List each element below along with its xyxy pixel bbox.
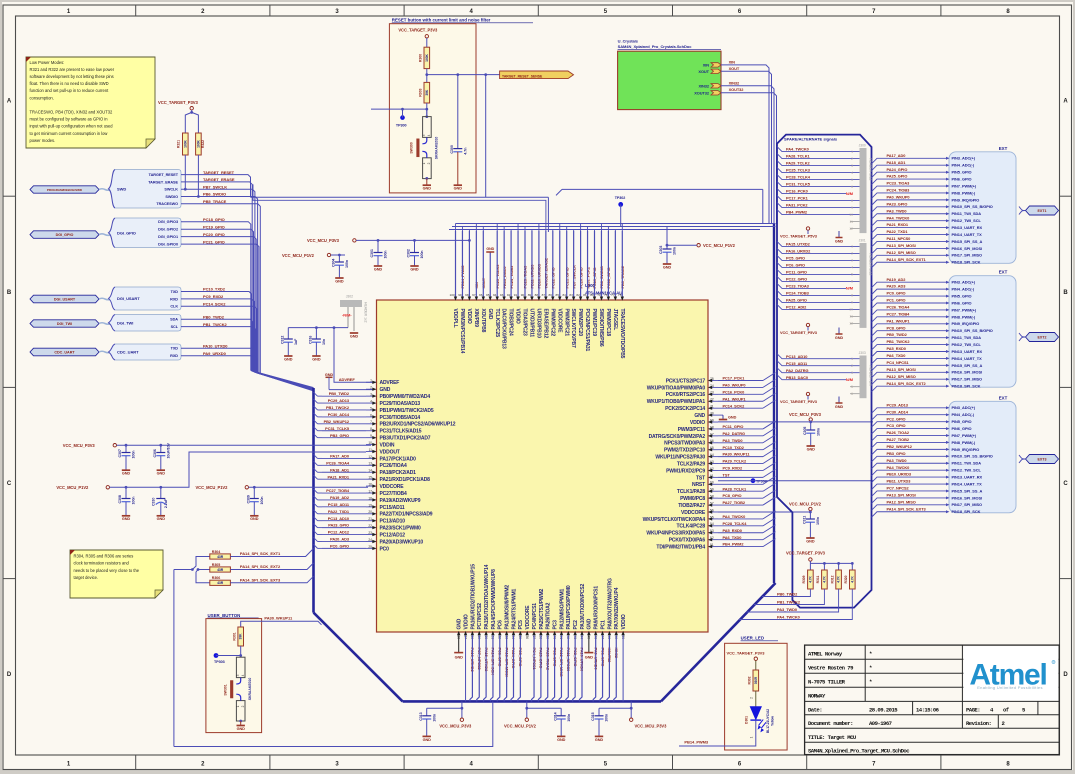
svg-text:PC14_SCK2: PC14_SCK2: [203, 302, 226, 307]
svg-text:90: 90: [521, 293, 525, 297]
svg-text:PA11_NPCS0: PA11_NPCS0: [887, 236, 911, 241]
svg-text:97: 97: [472, 293, 476, 297]
svg-text:VCC_MCU_P3V3: VCC_MCU_P3V3: [439, 723, 472, 728]
svg-text:A: A: [1063, 99, 1068, 105]
capacitor C315: [598, 708, 600, 716]
svg-text:PIN14_UART_TX: PIN14_UART_TX: [952, 232, 983, 237]
svg-text:float. Then there is no need t: float. Then there is no need to disable …: [30, 81, 109, 86]
capacitor C304: [338, 255, 340, 262]
capacitor C302: [414, 240, 416, 252]
capacitor C308: [125, 487, 127, 498]
capacitor C313: [426, 708, 428, 716]
svg-text:PA20_AD3: PA20_AD3: [330, 537, 350, 542]
svg-text:PA0_WKUP0: PA0_WKUP0: [723, 383, 746, 388]
svg-text:PC9_RXD2: PC9_RXD2: [203, 294, 224, 299]
svg-text:N/M: N/M: [846, 377, 853, 382]
svg-text:85: 85: [555, 293, 559, 297]
svg-text:1: 1: [851, 150, 853, 154]
power tap VCC_MCU_P3V3 bottom right: [630, 701, 632, 718]
svg-text:1: 1: [422, 162, 426, 164]
svg-text:PC25_TCLK3: PC25_TCLK3: [786, 168, 811, 173]
svg-text:C304: C304: [332, 259, 336, 267]
resistor R311: [822, 570, 828, 589]
svg-text:PWM1/RXD2/PC9: PWM1/RXD2/PC9: [666, 468, 705, 474]
svg-text:C312: C312: [281, 336, 285, 344]
resistor R320: [850, 570, 856, 589]
svg-text:PIN10_SPI_SS_B/GPIO: PIN10_SPI_SS_B/GPIO: [952, 328, 993, 333]
svg-text:PCK2/NPCS1/PA31: PCK2/NPCS1/PA31: [584, 309, 590, 352]
svg-text:R320: R320: [844, 575, 848, 583]
svg-text:PC31_TCLK5: PC31_TCLK5: [786, 182, 811, 187]
svg-text:PC22_GPIO: PC22_GPIO: [786, 277, 807, 282]
svg-text:UTXD3/PB11: UTXD3/PB11: [529, 309, 535, 338]
svg-text:PA19_AD2: PA19_AD2: [330, 495, 350, 500]
svg-text:PA4_TWCK0: PA4_TWCK0: [777, 615, 800, 620]
harness DGI_USART: [113, 287, 181, 309]
svg-text:PIN18_SPI_SCK: PIN18_SPI_SCK: [952, 384, 981, 389]
svg-text:TCLK3/PC25: TCLK3/PC25: [494, 309, 500, 338]
svg-text:TARGET_RESET: TARGET_RESET: [149, 173, 179, 177]
svg-text:TCLK1/PA28: TCLK1/PA28: [677, 489, 706, 495]
svg-text:TP300: TP300: [396, 123, 407, 127]
svg-text:GND: GND: [585, 656, 594, 660]
svg-text:3: 3: [422, 134, 426, 136]
svg-text:PIN5_GPIO: PIN5_GPIO: [952, 419, 972, 424]
svg-text:TXD: TXD: [171, 290, 179, 294]
svg-text:consumption.: consumption.: [30, 95, 54, 100]
svg-text:VCC_MCU_P3V3: VCC_MCU_P3V3: [63, 443, 96, 448]
svg-text:XOUT32: XOUT32: [729, 87, 745, 92]
svg-text:PA26/TIOA2: PA26/TIOA2: [546, 602, 552, 629]
capacitor C312: [287, 328, 289, 339]
svg-text:TARGET_RESET_SENSE: TARGET_RESET_SENSE: [502, 74, 543, 78]
title block table: [805, 645, 1060, 755]
svg-text:PIN8_PWM(-): PIN8_PWM(-): [952, 314, 976, 319]
svg-text:VCC_MCU_P1V2: VCC_MCU_P1V2: [703, 243, 736, 248]
svg-text:PB1_TWCK2: PB1_TWCK2: [203, 322, 228, 327]
svg-text:EXT: EXT: [999, 270, 1008, 275]
svg-text:2: 2: [749, 697, 753, 699]
svg-text:PC23_TIOA3: PC23_TIOA3: [786, 284, 810, 289]
svg-text:PA4_TWCK0: PA4_TWCK0: [786, 147, 809, 152]
svg-text:DGI_GPIO0: DGI_GPIO0: [158, 243, 178, 247]
svg-text:R303: R303: [419, 89, 423, 97]
svg-text:PC16_PCK0: PC16_PCK0: [786, 189, 808, 194]
svg-text:PIN15_SPI_SS_A: PIN15_SPI_SS_A: [952, 239, 983, 244]
wire ADVREF from rail: [334, 328, 377, 383]
svg-text:PB0_TWD2: PB0_TWD2: [887, 332, 908, 337]
svg-text:PA23/SCK1/PWM0: PA23/SCK1/PWM0: [380, 526, 422, 532]
svg-text:PIN3_ADC(+): PIN3_ADC(+): [952, 156, 976, 161]
capacitor C316: [315, 328, 317, 339]
svg-text:J301: J301: [859, 239, 866, 243]
svg-text:DGI_GPIO: DGI_GPIO: [56, 233, 74, 237]
power VCC_TARGET_P5V3 under J301: [806, 323, 809, 326]
svg-text:PA6_TXD0: PA6_TXD0: [887, 353, 906, 358]
port EXT3: [1019, 455, 1025, 459]
svg-text:4: 4: [241, 674, 245, 676]
svg-text:100n: 100n: [132, 497, 136, 505]
svg-text:*: *: [869, 664, 872, 671]
svg-text:PC12_AD12: PC12_AD12: [328, 530, 350, 535]
svg-text:R321: R321: [177, 140, 181, 148]
svg-text:Yellow: Yellow: [771, 716, 775, 726]
svg-text:PA21_RXD1: PA21_RXD1: [328, 474, 350, 479]
svg-text:DATRG/SCK0/PWM2/PA2: DATRG/SCK0/PWM2/PA2: [649, 434, 706, 440]
svg-text:PC12_ADI2: PC12_ADI2: [786, 305, 807, 310]
USER_BUTTON box outline: [206, 619, 262, 733]
svg-text:CDC_UART: CDC_UART: [117, 350, 139, 355]
wire R300 to junction: [426, 69, 428, 83]
svg-text:GND: GND: [806, 539, 815, 543]
svg-text:PC14_SCK2: PC14_SCK2: [723, 403, 746, 408]
resistor R321: [183, 133, 189, 155]
svg-text:PA22/TXD1/NPCS3/AD9: PA22/TXD1/NPCS3/AD9: [380, 512, 433, 518]
EXT group box EXT2: [949, 276, 1016, 388]
svg-text:VCC_TARGET_P3V3: VCC_TARGET_P3V3: [158, 100, 198, 105]
svg-text:PC6_GPIO: PC6_GPIO: [786, 263, 805, 268]
svg-text:PIN18_SPI_SCK: PIN18_SPI_SCK: [952, 509, 981, 514]
svg-text:1: 1: [236, 705, 240, 707]
svg-text:81: 81: [583, 293, 587, 297]
svg-text:VCC_MCU_P3V3: VCC_MCU_P3V3: [789, 412, 822, 417]
wire reset row to left: [371, 108, 427, 110]
port EXT2: [1019, 333, 1025, 337]
svg-text:98: 98: [465, 293, 469, 297]
svg-text:VCC_MCU_P1V2: VCC_MCU_P1V2: [56, 485, 89, 490]
svg-text:PA1_WKUP1: PA1_WKUP1: [887, 318, 911, 323]
svg-text:Revision:: Revision:: [966, 720, 991, 727]
svg-text:8: 8: [851, 294, 853, 298]
svg-text:PA24/RTS1/PWM1: PA24/RTS1/PWM1: [511, 589, 517, 630]
svg-text:3: 3: [851, 259, 853, 263]
svg-text:PC29_AD13: PC29_AD13: [887, 402, 909, 407]
svg-text:4: 4: [427, 134, 431, 136]
svg-text:PB3/UTXD1/PCK2/AD7: PB3/UTXD1/PCK2/AD7: [380, 436, 431, 442]
harness DGI_GPIO: [113, 218, 181, 247]
svg-text:DAC0/PCK0/PB13: DAC0/PCK0/PB13: [501, 309, 507, 350]
svg-text:PA7/XIN32/WKUP4: PA7/XIN32/WKUP4: [614, 587, 620, 629]
svg-text:PA8/XOUT32/WADTRG: PA8/XOUT32/WADTRG: [607, 578, 613, 630]
svg-text:VDDCORE: VDDCORE: [556, 309, 562, 334]
svg-text:PIN11_TWI_SDA: PIN11_TWI_SDA: [952, 211, 982, 216]
svg-text:PIN10_SPI_SS_B/GPIO: PIN10_SPI_SS_B/GPIO: [952, 454, 993, 459]
svg-text:PA3_TWD0: PA3_TWD0: [887, 458, 907, 463]
svg-text:PA1_WKUP1: PA1_WKUP1: [723, 396, 747, 401]
svg-text:PB7_SWCLK: PB7_SWCLK: [203, 184, 227, 189]
svg-text:SDA: SDA: [170, 318, 178, 322]
svg-text:DGI_GPIO1: DGI_GPIO1: [158, 235, 178, 239]
svg-text:PB1_TWCK2: PB1_TWCK2: [887, 339, 911, 344]
svg-text:GND: GND: [595, 738, 604, 742]
svg-text:100K: 100K: [425, 54, 429, 62]
svg-text:PIN9_IRQ/GPIO: PIN9_IRQ/GPIO: [952, 321, 980, 326]
svg-text:PA25/CTS1/PWM2: PA25/CTS1/PWM2: [539, 589, 545, 630]
svg-text:PA13/MOSI/8/PWM2: PA13/MOSI/8/PWM2: [505, 585, 511, 630]
svg-text:8: 8: [851, 199, 853, 203]
svg-text:GND: GND: [335, 279, 344, 283]
svg-text:-N/M-: -N/M-: [342, 313, 352, 318]
svg-text:GND: GND: [157, 517, 166, 521]
svg-text:®: ®: [1053, 661, 1055, 664]
svg-text:PC13_AD10: PC13_AD10: [786, 354, 807, 359]
svg-text:XIN: XIN: [703, 62, 710, 67]
svg-text:96: 96: [479, 293, 483, 297]
svg-text:PA13_SPI_MOSI: PA13_SPI_MOSI: [887, 243, 916, 248]
svg-text:SWDIO: SWDIO: [165, 195, 178, 199]
svg-text:XOUT32: XOUT32: [694, 90, 710, 95]
svg-text:PB1/PWM1/TWCK2/AD5: PB1/PWM1/TWCK2/AD5: [380, 408, 434, 414]
svg-text:PA23_GPIO: PA23_GPIO: [328, 523, 349, 528]
svg-text:NRST: NRST: [692, 482, 705, 488]
svg-text:GND: GND: [312, 357, 321, 361]
svg-text:39K: 39K: [239, 633, 243, 640]
gnd at MCU right pin 70: [718, 414, 723, 416]
LED D301: [750, 707, 761, 720]
svg-text:PA12_SPI_MISO: PA12_SPI_MISO: [887, 250, 916, 255]
svg-text:PC30/TIOB5/AD14: PC30/TIOB5/AD14: [380, 415, 421, 421]
svg-text:TIOA3/PC23: TIOA3/PC23: [522, 309, 528, 336]
svg-text:PC2: PC2: [573, 620, 579, 630]
wires crystals to right bus: [721, 65, 769, 224]
svg-text:SW301: SW301: [224, 684, 228, 695]
svg-text:PCK0/RTS2/PC16: PCK0/RTS2/PC16: [666, 392, 706, 398]
svg-text:SWCLK/TCK/PB7: SWCLK/TCK/PB7: [570, 309, 576, 349]
svg-text:87: 87: [542, 293, 546, 297]
svg-text:PA20/AD3/WKUP10: PA20/AD3/WKUP10: [380, 539, 424, 545]
svg-text:5: 5: [851, 385, 853, 389]
svg-text:RXD: RXD: [170, 354, 178, 358]
svg-text:76: 76: [618, 293, 622, 297]
svg-text:4.7K: 4.7K: [822, 575, 826, 582]
gnd under SW301: [239, 720, 242, 723]
svg-text:100n: 100n: [816, 428, 820, 436]
svg-text:PWM2/PC20: PWM2/PC20: [577, 309, 583, 337]
wire TARGET_RESET_SENSE down to corridor: [485, 75, 487, 198]
svg-text:86: 86: [549, 293, 553, 297]
svg-text:PWM3/PC21: PWM3/PC21: [563, 309, 569, 337]
svg-text:100n: 100n: [260, 497, 264, 505]
svg-text:PCK1/CTS2/PC17: PCK1/CTS2/PC17: [666, 378, 706, 384]
svg-text:100n: 100n: [673, 247, 677, 255]
svg-text:PA2_DATRG: PA2_DATRG: [723, 431, 745, 436]
svg-text:WKUP11/NPCS2/PA30: WKUP11/NPCS2/PA30: [655, 455, 705, 461]
svg-text:NPCS3/TWD0/PA3: NPCS3/TWD0/PA3: [664, 441, 705, 447]
svg-text:PIN4_ADC(-): PIN4_ADC(-): [952, 287, 975, 292]
svg-text:88: 88: [535, 293, 539, 297]
svg-text:VCC_TARGET_P5V3: VCC_TARGET_P5V3: [780, 399, 818, 404]
power tap VCC_MCU_P3V3 bottom left: [427, 707, 462, 709]
svg-text:PB2_WKUP12: PB2_WKUP12: [324, 419, 350, 424]
svg-text:C305: C305: [803, 427, 807, 435]
svg-text:PIN11_TWI_SDA: PIN11_TWI_SDA: [952, 461, 982, 466]
svg-text:PA2_DATRG: PA2_DATRG: [786, 368, 808, 373]
svg-text:2: 2: [851, 364, 853, 368]
svg-text:PA3_TWD0: PA3_TWD0: [723, 438, 743, 443]
resistor R303: [424, 82, 430, 103]
svg-text:PC29_AD13: PC29_AD13: [328, 398, 350, 403]
svg-text:PC28_TCLK4: PC28_TCLK4: [723, 521, 748, 526]
svg-text:GND: GND: [350, 334, 359, 338]
svg-text:PA19/AD2/WKUP9: PA19/AD2/WKUP9: [380, 498, 421, 504]
svg-text:DGI_GPIO2: DGI_GPIO2: [158, 228, 178, 232]
svg-text:PA4_TWCK0: PA4_TWCK0: [723, 514, 746, 519]
svg-text:PA5_RXD0: PA5_RXD0: [887, 346, 906, 351]
svg-text:J303: J303: [859, 351, 866, 355]
svg-text:SAM4N_Xplained_Pro_Target_MCU.: SAM4N_Xplained_Pro_Target_MCU.SchDoc: [808, 747, 910, 754]
svg-text:TXD: TXD: [171, 347, 179, 351]
svg-text:PIN6_GPIO: PIN6_GPIO: [952, 176, 972, 181]
svg-text:28.09.2015: 28.09.2015: [869, 707, 898, 714]
svg-text:PC6: PC6: [498, 620, 504, 630]
svg-text:2.2uF: 2.2uF: [164, 498, 168, 508]
svg-text:PWM0/PC18: PWM0/PC18: [605, 309, 611, 337]
svg-text:100n: 100n: [132, 451, 136, 459]
svg-text:Low Power Modes:: Low Power Modes:: [30, 60, 65, 65]
svg-text:USER_BUTTON: USER_BUTTON: [208, 613, 241, 618]
svg-text:HEADER 1x12: HEADER 1x12: [869, 253, 873, 276]
svg-text:PC10_TXD2: PC10_TXD2: [723, 445, 745, 450]
svg-text:PA19_AD2: PA19_AD2: [887, 277, 907, 282]
svg-text:R304: R304: [212, 550, 220, 554]
svg-text:PC3_GPIO: PC3_GPIO: [887, 423, 906, 428]
USER_LED box outline: [725, 643, 788, 750]
svg-text:PIN17_SPI_MISO: PIN17_SPI_MISO: [952, 253, 983, 258]
svg-text:PA3_TWD0: PA3_TWD0: [777, 607, 797, 612]
svg-text:92: 92: [507, 293, 511, 297]
svg-text:GND: GND: [374, 267, 383, 271]
capacitor C306: [160, 445, 162, 452]
resistor R305: [210, 567, 231, 572]
port CDC_UART: [30, 348, 99, 356]
svg-text:PC13/AD10: PC13/AD10: [380, 519, 406, 525]
svg-text:GND: GND: [663, 265, 672, 269]
svg-text:needs to be placed very close: needs to be placed very close to the: [74, 568, 140, 573]
harness tag TARGET_RESET_SENSE: [500, 71, 574, 79]
svg-text:TP303: TP303: [214, 660, 225, 664]
svg-text:PIN16_SPI_MOSI: PIN16_SPI_MOSI: [952, 370, 983, 375]
svg-text:PA15_UTXD2: PA15_UTXD2: [786, 242, 811, 247]
svg-text:Vestre Rosten 79: Vestre Rosten 79: [808, 664, 854, 671]
svg-text:PA15/UTXD2/TIOA1/WKUP14: PA15/UTXD2/TIOA1/WKUP14: [484, 564, 490, 629]
svg-text:U_Crystals: U_Crystals: [618, 38, 639, 43]
svg-text:TITLE: Target MCU: TITLE: Target MCU: [808, 734, 856, 741]
svg-text:XIN32: XIN32: [698, 83, 709, 88]
svg-text:TRACESWO, PB4 (TDI), XIN32 and: TRACESWO, PB4 (TDI), XIN32 and XOUT32: [30, 110, 114, 115]
power VCC_MCU_P1V2 top right: [697, 244, 700, 247]
svg-text:XIN/PB9: XIN/PB9: [473, 309, 479, 328]
Atmel logo: [963, 646, 1058, 700]
svg-text:PIN17_SPI_MISO: PIN17_SPI_MISO: [952, 377, 983, 382]
harness CDC_UART: [113, 344, 181, 359]
svg-text:PA11/NPCS0/PWM0: PA11/NPCS0/PWM0: [566, 585, 572, 629]
svg-text:PB11_UTXD3: PB11_UTXD3: [887, 479, 912, 484]
capacitor C303: [666, 227, 668, 250]
svg-text:PA18_AD1: PA18_AD1: [330, 467, 350, 472]
svg-text:PA6_TXD0: PA6_TXD0: [723, 535, 742, 540]
resistor R309: [808, 570, 814, 589]
svg-text:GND: GND: [325, 373, 334, 377]
svg-text:DGI_USART: DGI_USART: [54, 297, 76, 301]
svg-text:PIN13_UART_RX: PIN13_UART_RX: [952, 475, 983, 480]
port DGI_GPIO: [30, 231, 99, 239]
svg-text:VCC_TARGET_P3V3: VCC_TARGET_P3V3: [398, 27, 438, 32]
svg-text:PC3: PC3: [552, 620, 558, 630]
svg-text:11: 11: [849, 220, 853, 224]
svg-text:PC4/NPCS1: PC4/NPCS1: [532, 603, 538, 630]
svg-text:PC7_NPCS2: PC7_NPCS2: [887, 486, 910, 491]
svg-text:PB13_DAC0: PB13_DAC0: [786, 375, 808, 380]
bottom bus horizontal: [403, 700, 661, 703]
svg-text:GND: GND: [250, 517, 259, 521]
svg-text:2: 2: [851, 252, 853, 256]
svg-text:GND: GND: [835, 336, 844, 340]
svg-text:VDDIN: VDDIN: [380, 442, 395, 448]
svg-text:100n: 100n: [567, 714, 571, 722]
svg-text:TDI/PWM2/TWD1/PB4: TDI/PWM2/TWD1/PB4: [656, 544, 705, 550]
svg-text:PC15_AD11: PC15_AD11: [328, 502, 350, 507]
svg-text:PC9_RXD2: PC9_RXD2: [723, 466, 744, 471]
svg-text:XOUT: XOUT: [729, 66, 740, 71]
svg-text:PA12_SPI_MISO: PA12_SPI_MISO: [887, 374, 916, 379]
svg-text:HEADER 1x2: HEADER 1x2: [364, 302, 368, 323]
svg-text:C300: C300: [450, 145, 454, 153]
svg-text:VCC_MCU_P1V2: VCC_MCU_P1V2: [196, 485, 229, 490]
svg-text:PA29_TCLK2: PA29_TCLK2: [723, 459, 747, 464]
svg-text:A: A: [7, 99, 12, 105]
svg-text:Date:: Date:: [808, 707, 822, 714]
svg-text:PC11_GPIO: PC11_GPIO: [723, 424, 744, 429]
svg-text:XOUT: XOUT: [698, 69, 709, 74]
svg-text:power modes.: power modes.: [30, 138, 56, 143]
svg-text:DGI_TWI: DGI_TWI: [57, 322, 72, 326]
svg-text:GND: GND: [486, 247, 494, 251]
svg-text:PB1_TWCK2: PB1_TWCK2: [326, 405, 350, 410]
svg-text:PB3_GPIO: PB3_GPIO: [887, 451, 906, 456]
svg-text:390R: 390R: [754, 676, 758, 684]
svg-text:PA30_WKUP11: PA30_WKUP11: [723, 452, 751, 457]
svg-text:C310: C310: [152, 498, 156, 506]
svg-text:93: 93: [500, 293, 504, 297]
svg-text:PIN13_UART_RX: PIN13_UART_RX: [952, 225, 983, 230]
svg-text:SWDIO/TMS/PB6: SWDIO/TMS/PB6: [598, 309, 604, 347]
svg-text:Enabling Unlimited Possibiliti: Enabling Unlimited Possibilities: [977, 685, 1043, 690]
svg-text:43R: 43R: [217, 581, 224, 585]
power VCC_TARGET_P5V3 under J303: [806, 392, 809, 395]
svg-text:PWM1/PC19: PWM1/PC19: [591, 309, 597, 337]
svg-text:PIN10_SPI_SS_B/GPIO: PIN10_SPI_SS_B/GPIO: [952, 204, 993, 209]
svg-text:PA27_TIOB2: PA27_TIOB2: [723, 500, 746, 505]
svg-text:J302: J302: [346, 295, 353, 299]
port PROGRAM/DEBUG/SWD: [30, 186, 99, 193]
MCU body ATSAM4N16CA-AU: [377, 300, 709, 632]
svg-text:PB0_TWD2: PB0_TWD2: [203, 315, 225, 320]
svg-text:100K: 100K: [183, 140, 187, 148]
RESET box outline: [389, 24, 476, 193]
svg-text:R300: R300: [419, 54, 423, 62]
svg-text:PWM0/PC8: PWM0/PC8: [680, 496, 705, 502]
note: clock termination resistors: [70, 550, 163, 598]
svg-text:PROGRAM/DEBUG/SWD: PROGRAM/DEBUG/SWD: [47, 188, 83, 192]
svg-text:2: 2: [241, 705, 245, 707]
svg-text:PA17/PCK1/AD0: PA17/PCK1/AD0: [380, 456, 417, 462]
svg-text:PC27_TIOB4: PC27_TIOB4: [326, 488, 350, 493]
power VCC_TARGET_P5V3 under J300: [806, 227, 809, 230]
resistor R301: [238, 627, 244, 646]
svg-text:PB3_GPIO: PB3_GPIO: [330, 433, 349, 438]
svg-text:PC11_GPIO: PC11_GPIO: [786, 270, 807, 275]
svg-text:VDDIO: VDDIO: [690, 420, 705, 426]
